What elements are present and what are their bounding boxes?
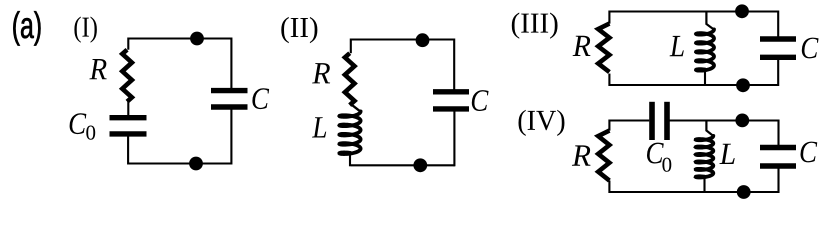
circuit III left wire bottom stub [608, 74, 610, 86]
label C (circuit II) [472, 90, 489, 111]
circuit IV left wire bottom stub [608, 181, 610, 194]
node dot bottom (circuit II) [413, 158, 427, 172]
label C0 (circuit I) [70, 113, 87, 134]
node dot bottom (circuit I) [189, 157, 203, 171]
capacitor C0 plates (circuit IV) [649, 102, 655, 140]
circuit II left wire top stub [350, 39, 352, 54]
wire resistor to C0 [127, 101, 129, 116]
inductor L coil (circuit IV) [696, 136, 714, 178]
label (II) [281, 17, 317, 43]
capacitor C plates (circuit I) [211, 88, 248, 93]
resistor R (circuit I) [122, 50, 132, 102]
label C (circuit III) [802, 38, 819, 59]
label C0 subscript (circuit I) [86, 126, 95, 140]
node dot top (circuit III) [735, 4, 749, 18]
node dot bottom (circuit III) [736, 78, 750, 92]
circuit III right wire bottom stub [777, 59, 779, 87]
label (IV) [519, 110, 565, 136]
label L (circuit III) [670, 36, 684, 56]
circuit IV bottom wire [609, 191, 779, 193]
label C0 subscript (circuit IV) [662, 158, 671, 172]
node dot bottom (circuit IV) [737, 185, 751, 199]
wire inductor to bottom rail (circuit III) [704, 69, 706, 86]
resistor R (circuit IV) [598, 131, 609, 181]
resistor R (circuit III) [598, 24, 609, 73]
label R (circuit IV) [572, 145, 591, 165]
label R (circuit I) [89, 59, 106, 79]
circuit I left wire top stub [127, 38, 129, 50]
label R (circuit III) [573, 36, 591, 56]
label C (circuit I) [252, 88, 269, 109]
wire top rail to inductor (circuit III) [706, 12, 713, 30]
label L (circuit II) [312, 117, 326, 137]
inductor L coil (circuit II) [339, 111, 360, 154]
wire resistor to inductor [351, 104, 361, 112]
circuit III bottom wire [609, 84, 778, 86]
inductor L coil (circuit III) [696, 29, 714, 70]
resistor R (circuit II) [345, 53, 355, 105]
circuit I bottom wire [128, 162, 231, 164]
panel label (a) [13, 11, 40, 45]
wire inductor to bottom rail [349, 153, 351, 167]
circuit IV top wire right segment [669, 119, 779, 121]
circuit III right wire top stub [777, 11, 779, 38]
circuit IV left wire top stub [608, 120, 610, 131]
label C0 (circuit IV) [647, 143, 664, 164]
capacitor C plates (circuit III) [760, 36, 796, 41]
circuit IV right wire bottom stub [777, 167, 779, 193]
circuit II right wire bottom stub [453, 110, 455, 166]
label R (circuit II) [312, 63, 330, 83]
label (I) [74, 17, 96, 43]
circuit III top wire [609, 10, 778, 12]
capacitor C0 plates (circuit I) [110, 115, 147, 120]
circuit I right wire bottom stub [230, 108, 232, 165]
node dot top (circuit II) [416, 33, 430, 47]
node dot top (circuit IV) [735, 114, 749, 128]
wire top rail to inductor (circuit IV) [706, 121, 713, 136]
circuit IV top wire left segment [609, 119, 649, 121]
circuit II right wire top stub [453, 39, 455, 92]
circuit II bottom wire [351, 164, 455, 166]
wire C0 to bottom rail [127, 136, 129, 165]
circuit III left wire top stub [608, 11, 610, 24]
circuit I top wire [128, 37, 231, 39]
circuit IV right wire top stub [777, 120, 779, 146]
label C (circuit IV) [801, 142, 818, 163]
node dot top (circuit I) [190, 32, 204, 46]
wire inductor to bottom rail (circuit IV) [703, 177, 705, 193]
circuit I right wire top stub [230, 38, 232, 90]
capacitor C plates (circuit II) [433, 89, 469, 94]
capacitor C plates (circuit IV) [760, 145, 796, 150]
label (III) [512, 13, 558, 39]
circuit II top wire [351, 38, 454, 40]
label L (circuit IV) [719, 144, 734, 164]
